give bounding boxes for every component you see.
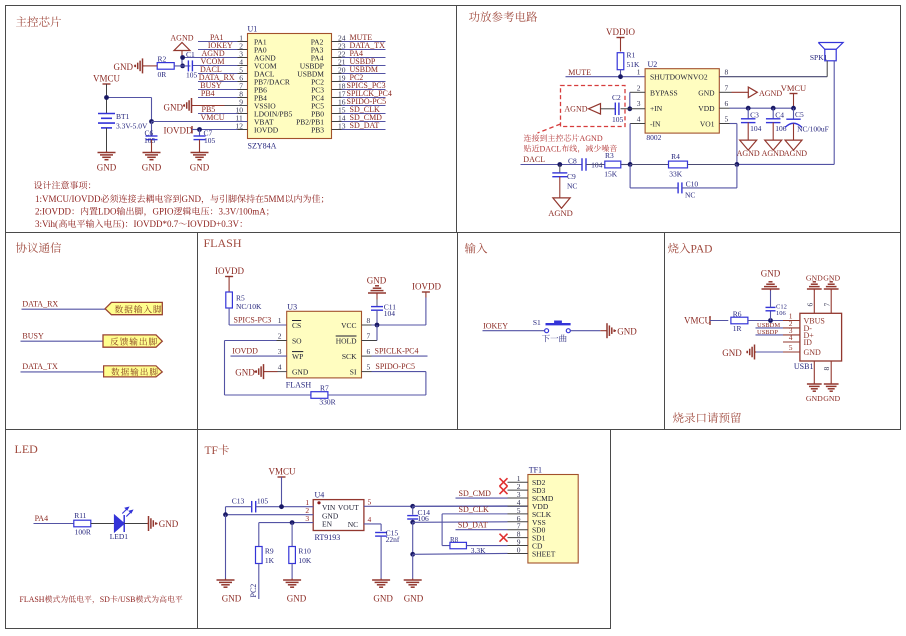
TF1 pin numbers xyxy=(517,474,521,554)
svg-text:R3: R3 xyxy=(605,151,614,160)
svg-text:-IN: -IN xyxy=(650,120,661,129)
wire EN to R9 xyxy=(258,523,260,547)
ground GND below R10 xyxy=(291,579,293,581)
U2 pin7 wire GND to AGND xyxy=(719,91,731,93)
junction C3 xyxy=(746,106,751,111)
capacitor C9 xyxy=(559,165,561,174)
svg-text:+IN: +IN xyxy=(650,104,663,113)
section frame 输入 xyxy=(458,233,665,430)
svg-text:330R: 330R xyxy=(319,398,335,407)
junction C5 VMCU xyxy=(791,106,796,111)
svg-text:105: 105 xyxy=(612,115,624,124)
resistor R2 xyxy=(157,63,174,70)
wire battery to ground xyxy=(106,128,108,151)
wire R10 top xyxy=(291,523,293,547)
junction SHEET xyxy=(410,552,415,557)
svg-text:8: 8 xyxy=(725,68,729,77)
U2 pin6 wire VDD xyxy=(719,107,729,109)
TF1 pin stubs xyxy=(508,482,528,553)
svg-text:BUSY: BUSY xyxy=(22,332,44,341)
svg-text:SD: SD xyxy=(100,595,110,604)
capacitor C15 xyxy=(375,532,387,534)
svg-text:AGND: AGND xyxy=(762,149,785,158)
svg-text:IOVDD*0.7: IOVDD*0.7 xyxy=(134,219,179,229)
wire MUTE to pin1 xyxy=(566,76,646,78)
wire R2 to C1 junction xyxy=(174,65,190,67)
pin7 number xyxy=(823,303,832,307)
wire LED1 to GND xyxy=(124,523,147,525)
svg-text:NC: NC xyxy=(685,191,695,200)
svg-text:PA4: PA4 xyxy=(35,514,49,523)
USB1 pin8 stub bottom xyxy=(813,361,815,383)
svg-text:7: 7 xyxy=(725,83,729,92)
svg-text:5: 5 xyxy=(367,363,371,372)
svg-text:C8: C8 xyxy=(568,157,577,166)
svg-text:105: 105 xyxy=(144,136,156,145)
capacitor C2 xyxy=(614,103,616,116)
svg-text:SD_DAT: SD_DAT xyxy=(350,121,380,130)
svg-text:3: 3 xyxy=(637,99,641,108)
svg-text:WP: WP xyxy=(292,352,303,361)
chip U2 8002 body xyxy=(645,69,719,133)
wire USBDP pin3 xyxy=(756,334,784,336)
svg-text:VMCU: VMCU xyxy=(781,83,807,93)
svg-text:U4: U4 xyxy=(315,491,325,500)
resistor R8 xyxy=(442,545,450,547)
wire R5 to pin1 xyxy=(228,308,230,325)
ground GND below BT1 xyxy=(106,151,108,153)
wire node A to R4 xyxy=(630,164,668,166)
svg-text:VDD: VDD xyxy=(698,104,715,113)
junction C11 pin8 xyxy=(375,323,380,328)
svg-text:GND: GND xyxy=(292,368,309,377)
capacitor C1 xyxy=(187,60,189,71)
svg-text:10K: 10K xyxy=(298,556,312,565)
red note line2 贴近DACL布线 xyxy=(524,145,531,152)
U3 pin5 wire SI xyxy=(362,371,372,373)
U2 left pin numbers xyxy=(637,68,729,124)
capacitor C4 xyxy=(772,108,774,119)
wire USBDM pin2 xyxy=(756,327,784,329)
svg-text:C5: C5 xyxy=(795,110,804,119)
svg-text:IOVDD+0.3V: IOVDD+0.3V xyxy=(187,219,239,229)
speaker SPK1 xyxy=(818,43,843,50)
resistor R5 xyxy=(226,292,233,308)
svg-text:105: 105 xyxy=(257,496,269,505)
svg-text:R9: R9 xyxy=(265,547,274,556)
no-connect X pin8 xyxy=(500,534,508,542)
svg-text:8: 8 xyxy=(367,316,371,325)
svg-text:GND: GND xyxy=(804,348,822,357)
wire DATA_RX xyxy=(22,308,106,310)
U3 pin8 wire VCC xyxy=(362,324,372,326)
svg-text:VDDIO: VDDIO xyxy=(606,27,635,37)
speaker right lead xyxy=(833,61,835,165)
junction VMCU pin1 xyxy=(279,504,284,509)
svg-text:): ) xyxy=(122,219,125,229)
svg-text:NC/10K: NC/10K xyxy=(236,302,262,311)
svg-text:GND: GND xyxy=(159,519,179,529)
resistor R4 xyxy=(669,161,688,168)
svg-text:GND: GND xyxy=(190,163,210,173)
svg-text:C1: C1 xyxy=(186,50,195,59)
svg-text:3: 3 xyxy=(278,347,282,356)
svg-text:EN: EN xyxy=(322,520,333,529)
svg-text:C3: C3 xyxy=(750,111,759,120)
capacitor C7 xyxy=(194,135,206,137)
svg-text:C9: C9 xyxy=(567,172,576,181)
svg-text:SPIDO-PC5: SPIDO-PC5 xyxy=(375,362,415,371)
svg-text:HOLD: HOLD xyxy=(336,337,357,346)
note 烧录口请预留 xyxy=(673,412,684,422)
svg-text:0R: 0R xyxy=(158,70,167,79)
wire speaker to node B xyxy=(737,163,834,165)
section frame 烧入PAD xyxy=(665,233,901,430)
wire VDD pin4 xyxy=(413,505,508,507)
wire SD_CMD xyxy=(456,497,508,499)
svg-text:BYPASS: BYPASS xyxy=(650,88,678,97)
svg-text:7: 7 xyxy=(367,332,371,341)
junction R2 C1 xyxy=(180,64,185,69)
svg-text:3.3V/100mA: 3.3V/100mA xyxy=(219,207,267,217)
wire gnd vertical down xyxy=(225,515,227,579)
no-connect X pin1 xyxy=(500,478,508,486)
junction VSS xyxy=(410,520,415,525)
junction R10 xyxy=(290,520,295,525)
chip U4 RT9193 body xyxy=(313,500,364,531)
svg-text:NC: NC xyxy=(567,182,577,191)
wire C14 to VSS xyxy=(412,519,414,523)
resistor R10 xyxy=(289,547,296,564)
LED LED1 xyxy=(114,515,124,532)
capacitor C12 xyxy=(770,311,772,321)
svg-text:SZY84A: SZY84A xyxy=(248,142,277,151)
capacitor C14 xyxy=(407,515,418,517)
svg-text:TF1: TF1 xyxy=(529,466,542,475)
svg-text:/USB: /USB xyxy=(118,595,136,604)
ground GND above pin7 xyxy=(830,289,832,291)
svg-text:1: 1 xyxy=(637,68,641,77)
ground GND below C7 xyxy=(199,151,201,153)
ground GND above C12 xyxy=(770,291,772,308)
svg-text:33K: 33K xyxy=(669,170,683,179)
svg-text:5: 5 xyxy=(789,343,793,352)
ground GND below pin9 xyxy=(830,383,832,385)
ground AGND below C9 xyxy=(553,198,570,208)
ground GND below C15 xyxy=(380,579,382,581)
title 输入 xyxy=(465,243,476,254)
section frame 功放参考电路 xyxy=(457,6,901,233)
svg-text:C4: C4 xyxy=(775,111,784,120)
U4 pin5 wire VOUT xyxy=(364,505,528,507)
svg-text:AGND: AGND xyxy=(170,34,193,43)
svg-text:1K: 1K xyxy=(265,556,275,565)
svg-text:LED1: LED1 xyxy=(110,532,129,541)
wire DACL to C8 xyxy=(521,164,583,166)
capacitor C11 xyxy=(371,306,383,308)
U1 right pin wires xyxy=(332,42,386,130)
junction VMCU chip wire xyxy=(149,119,154,124)
svg-text:106: 106 xyxy=(776,310,787,317)
svg-text:1R: 1R xyxy=(733,324,742,333)
wire IOVDD to C7 xyxy=(199,130,201,137)
pin6 number xyxy=(806,303,815,307)
svg-text:DACL: DACL xyxy=(523,155,545,164)
ground AGND below C3 xyxy=(740,140,757,150)
svg-text:CS: CS xyxy=(292,321,301,330)
svg-text:SD_DAT: SD_DAT xyxy=(458,521,488,530)
svg-text:SHUTDOWN: SHUTDOWN xyxy=(650,73,693,82)
junction C12 xyxy=(768,318,773,323)
junction MUTE R1 xyxy=(618,74,623,79)
wire C10 branch right xyxy=(682,187,737,189)
svg-text:IOKEY: IOKEY xyxy=(483,322,508,331)
tag 数据输入脚 input arrow xyxy=(105,302,162,314)
svg-text:104: 104 xyxy=(384,309,396,318)
svg-text:IOVDD: IOVDD xyxy=(254,126,279,135)
U3 pin numbers xyxy=(278,316,371,372)
svg-text:DACL: DACL xyxy=(540,144,562,153)
svg-text:U2: U2 xyxy=(648,60,658,69)
svg-text:PB4: PB4 xyxy=(201,89,215,98)
notes 设计注意事项 xyxy=(34,181,42,189)
USB1 pin9 stub bottom xyxy=(830,361,832,383)
wire BUSY xyxy=(21,340,104,342)
pin8 number xyxy=(822,367,831,371)
resistor R6 xyxy=(731,317,748,324)
svg-text:104: 104 xyxy=(750,124,762,133)
svg-text:VOUT: VOUT xyxy=(338,503,359,512)
svg-text:SI: SI xyxy=(350,368,357,377)
svg-text:FLASH: FLASH xyxy=(204,236,242,250)
svg-text:VO2: VO2 xyxy=(693,73,708,82)
battery BT1 xyxy=(98,113,115,115)
svg-text:GND: GND xyxy=(617,326,637,336)
U3 pin names xyxy=(292,321,357,377)
title 主控芯片 xyxy=(16,16,27,26)
section frame FLASH xyxy=(198,233,458,430)
ground GND input xyxy=(600,330,605,332)
ground GND led xyxy=(147,523,149,525)
junction pin2 gnd xyxy=(223,512,228,517)
node A junction xyxy=(628,162,633,167)
svg-text:GND: GND xyxy=(182,194,202,204)
U2 pin3 wire +IN xyxy=(621,108,646,110)
ground GND below C6 xyxy=(151,151,153,153)
svg-text:AGND: AGND xyxy=(784,149,807,158)
svg-text:ID: ID xyxy=(804,338,813,347)
svg-text:LED: LED xyxy=(15,442,39,456)
svg-text:MUTE: MUTE xyxy=(568,68,591,77)
wire R11 to LED1 xyxy=(91,523,115,525)
svg-text:106: 106 xyxy=(775,124,787,133)
dashed box AGND C2 xyxy=(561,86,626,127)
svg-text:R7: R7 xyxy=(320,384,329,393)
net label PC2 xyxy=(249,584,258,598)
svg-text:VCC: VCC xyxy=(341,321,356,330)
U4 pin1 dot xyxy=(317,501,320,504)
svg-text:SPK1: SPK1 xyxy=(810,53,828,62)
section frame 协议通信 xyxy=(6,233,198,430)
ground GND tf left xyxy=(225,579,227,581)
svg-text:GND: GND xyxy=(235,368,255,378)
ground GND below pin8 xyxy=(813,383,815,385)
section frame LED xyxy=(6,430,198,629)
title 协议通信 xyxy=(16,242,27,253)
wire VSS pin6 xyxy=(413,521,508,524)
wire C6 to ground xyxy=(151,140,153,151)
U2 pin names xyxy=(650,73,715,129)
U2 pin5 wire VO1 xyxy=(719,123,729,125)
svg-text:5MM: 5MM xyxy=(264,194,285,204)
wire junction to C6 xyxy=(151,122,153,137)
svg-text:3.3V-5.0V: 3.3V-5.0V xyxy=(116,122,148,131)
svg-text:C10: C10 xyxy=(686,180,699,189)
svg-text:AGND: AGND xyxy=(759,89,782,98)
svg-text:R11: R11 xyxy=(74,511,86,520)
wire to gnd tf right xyxy=(412,554,414,578)
ground GND above pin6 xyxy=(813,289,815,291)
svg-text:1: 1 xyxy=(278,316,282,325)
svg-text:GND: GND xyxy=(806,394,823,403)
svg-text:GND: GND xyxy=(698,88,715,97)
AGND right arrow pin7 xyxy=(748,87,757,98)
svg-text:R2: R2 xyxy=(158,55,167,64)
svg-text:VMCU: VMCU xyxy=(201,113,225,122)
svg-text:2: 2 xyxy=(637,83,641,92)
svg-text:8002: 8002 xyxy=(646,133,661,142)
wire R3 to node A xyxy=(621,164,630,166)
tag 反馈输出脚 output arrow xyxy=(103,335,162,347)
svg-text:IOVDD: IOVDD xyxy=(215,266,244,276)
svg-text:5: 5 xyxy=(368,498,372,507)
U3 pin2 wire SO loop xyxy=(277,340,287,342)
section frame TF卡 xyxy=(198,430,611,629)
connector USB1 body xyxy=(800,313,842,361)
U1 left pin names xyxy=(254,38,293,135)
wire VMCU node xyxy=(106,98,108,114)
junction C9 xyxy=(557,162,562,167)
svg-text:8: 8 xyxy=(822,367,831,371)
no-connect X pin2 xyxy=(500,486,508,494)
svg-text:LDO: LDO xyxy=(98,207,117,217)
wire PA4 to R11 xyxy=(34,523,74,525)
wire R6 to pin1 xyxy=(748,320,783,322)
title 烧入PAD xyxy=(668,243,679,253)
connector TF1 body xyxy=(528,475,578,564)
wire R9 to PC2 xyxy=(258,564,260,600)
U1 right pin numbers 24-13 xyxy=(338,34,346,131)
wire SHEET pin0 xyxy=(413,552,508,555)
U2 pin4 wire -IN xyxy=(630,123,645,125)
junction IOVDD xyxy=(197,127,202,132)
svg-text:GND: GND xyxy=(287,594,307,604)
wire SD_DAT xyxy=(456,529,508,531)
resistor R1 xyxy=(617,53,624,70)
svg-text:5: 5 xyxy=(725,115,729,124)
svg-text:2: 2 xyxy=(278,332,282,341)
svg-text:GPIO: GPIO xyxy=(153,207,175,217)
svg-text:GND: GND xyxy=(823,274,840,283)
svg-text:SPICLK-PC4: SPICLK-PC4 xyxy=(375,347,419,356)
svg-text:GND: GND xyxy=(806,274,823,283)
svg-text:AGND: AGND xyxy=(580,134,603,143)
svg-text:1:VMCU/IOVDD: 1:VMCU/IOVDD xyxy=(35,194,101,204)
junction pin2 pin3 xyxy=(627,106,632,111)
wire R10 to gnd xyxy=(291,564,293,579)
svg-text:RT9193: RT9193 xyxy=(315,533,341,542)
svg-text:R4: R4 xyxy=(671,152,680,161)
svg-text:6: 6 xyxy=(725,99,729,108)
svg-text:3:Vih(: 3:Vih( xyxy=(35,219,58,229)
tag 数据输出脚 output arrow xyxy=(104,366,163,377)
svg-text:7: 7 xyxy=(823,303,832,307)
svg-text:22nf: 22nf xyxy=(386,535,400,544)
wire C7 to ground xyxy=(199,140,201,151)
U2 pin8 wire VO2 to speaker xyxy=(719,76,827,78)
wire DATA_TX xyxy=(21,371,104,373)
svg-text:GND: GND xyxy=(404,594,424,604)
wire R7 right xyxy=(328,394,426,396)
resistor R7 xyxy=(311,392,328,399)
capacitor C13 xyxy=(251,501,253,513)
U3 pin3 wire WP xyxy=(231,355,287,357)
U3 pin6 wire SCK xyxy=(362,355,372,357)
speaker left lead xyxy=(826,61,828,77)
resistor R9 xyxy=(256,547,263,564)
svg-text:DATA_TX: DATA_TX xyxy=(22,362,58,371)
svg-text:AGND: AGND xyxy=(548,208,573,218)
TF1 pin names xyxy=(532,478,556,558)
svg-text:GND: GND xyxy=(114,62,134,72)
svg-text:SHEET: SHEET xyxy=(532,550,556,559)
svg-text:SPICS-PC3: SPICS-PC3 xyxy=(234,316,272,325)
wire VSS vertical down xyxy=(412,522,414,554)
U4 pin4 wire NC xyxy=(364,523,381,525)
svg-text:DATA_RX: DATA_RX xyxy=(22,300,58,309)
chip U1 SZY84A body xyxy=(248,34,332,139)
svg-text:VMCU: VMCU xyxy=(93,74,121,84)
svg-text:NC/100uF: NC/100uF xyxy=(797,124,829,133)
svg-text:SO: SO xyxy=(292,337,302,346)
wire C13 left to gnd vertical xyxy=(226,506,252,508)
title 功放参考电路 xyxy=(469,11,480,21)
svg-text:GND: GND xyxy=(222,594,242,604)
svg-text:VMCU: VMCU xyxy=(269,467,297,477)
svg-text:4: 4 xyxy=(278,363,282,372)
junction VMCU xyxy=(104,95,109,100)
wire R8 to CD pin9 xyxy=(467,545,508,547)
chip U3 FLASH body xyxy=(287,311,362,378)
svg-text:R6: R6 xyxy=(733,310,742,319)
svg-text:3: 3 xyxy=(305,514,309,523)
svg-text:SD_CLK: SD_CLK xyxy=(459,505,489,514)
svg-text:FLASH: FLASH xyxy=(286,381,312,390)
U4 pin2 wire GND xyxy=(226,514,314,516)
svg-text:105: 105 xyxy=(204,136,216,145)
wire R1 to MUTE xyxy=(620,70,622,77)
svg-text:C13: C13 xyxy=(232,496,245,505)
svg-text:GND: GND xyxy=(164,103,184,113)
U3 pin7 wire HOLD xyxy=(362,340,378,342)
svg-text:C2: C2 xyxy=(612,93,621,102)
svg-text:NC: NC xyxy=(348,520,358,529)
resistor R11 xyxy=(74,520,91,527)
svg-text:R8: R8 xyxy=(450,536,459,544)
U1 left net labels xyxy=(199,33,235,122)
USB1 pin names xyxy=(804,317,825,358)
svg-text:TF: TF xyxy=(205,445,218,457)
